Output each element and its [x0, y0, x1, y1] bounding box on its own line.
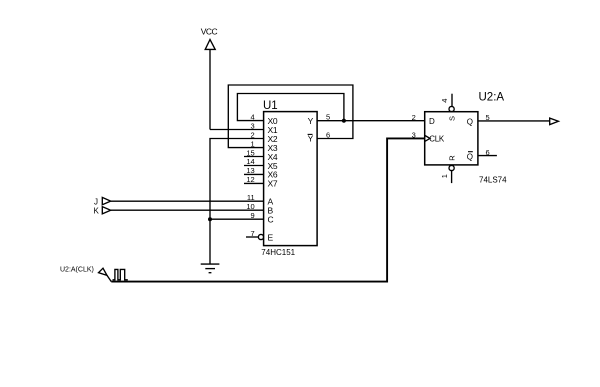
- pin X6 stub: [244, 173, 264, 175]
- svg-text:U2:A: U2:A: [479, 92, 505, 104]
- svg-text:14: 14: [246, 157, 254, 166]
- wire VCC to X1: [210, 129, 264, 131]
- svg-text:J: J: [94, 197, 98, 206]
- input J triangle: [102, 197, 110, 204]
- svg-text:VCC: VCC: [201, 26, 218, 36]
- wire CLK net: [111, 138, 425, 281]
- node junction C/ground: [208, 217, 212, 221]
- svg-text:5: 5: [486, 113, 490, 122]
- pin names U1 inside: [268, 116, 314, 242]
- ground: [201, 264, 220, 273]
- overbar Ybar: [308, 133, 313, 135]
- op U2 74LS74 box: [425, 112, 478, 165]
- svg-text:1: 1: [440, 174, 449, 178]
- svg-text:13: 13: [246, 166, 254, 175]
- svg-text:Y: Y: [308, 134, 314, 144]
- pin R bubble: [449, 165, 454, 170]
- input K triangle: [102, 207, 110, 214]
- op U1 74HC151 box: [264, 112, 318, 246]
- svg-text:1: 1: [251, 139, 255, 148]
- node junction Y: [342, 119, 346, 123]
- svg-text:C: C: [268, 215, 274, 225]
- wire Y output to D: [317, 120, 425, 122]
- svg-text:6: 6: [326, 130, 330, 139]
- pin X7 stub: [244, 182, 264, 184]
- wire feedback Y to X0: [237, 94, 344, 121]
- svg-text:5: 5: [326, 113, 330, 122]
- pin X5 stub: [244, 165, 264, 167]
- svg-text:Q: Q: [467, 118, 473, 127]
- pin S bubble: [449, 106, 454, 111]
- pin R wire: [451, 171, 453, 184]
- svg-text:E: E: [268, 232, 274, 242]
- svg-text:11: 11: [247, 193, 255, 202]
- pin E bubble: [258, 234, 263, 239]
- svg-text:10: 10: [246, 202, 254, 211]
- svg-text:D: D: [429, 117, 435, 126]
- svg-text:Y: Y: [308, 116, 314, 126]
- pin Q wire: [478, 120, 550, 122]
- svg-text:U1: U1: [263, 100, 278, 112]
- wire K to B: [111, 209, 264, 211]
- svg-text:12: 12: [246, 175, 254, 184]
- pin names U2 inside: [429, 116, 473, 161]
- svg-text:X7: X7: [268, 179, 278, 189]
- svg-text:K: K: [94, 207, 100, 216]
- svg-text:Q: Q: [467, 152, 473, 161]
- overbar Qbar label: [468, 151, 473, 153]
- wire J to A: [111, 200, 264, 202]
- svg-text:74HC151: 74HC151: [261, 248, 295, 257]
- svg-text:2: 2: [251, 130, 255, 139]
- pin numbers U2: [412, 99, 490, 179]
- svg-text:4: 4: [251, 112, 255, 121]
- output arrow: [550, 118, 559, 125]
- svg-text:CLK: CLK: [429, 135, 445, 144]
- svg-text:74LS74: 74LS74: [479, 176, 507, 185]
- clock triangle inside U2: [425, 136, 430, 142]
- wire feedback Ybar to X3: [228, 85, 353, 148]
- pin E stub: [246, 236, 258, 238]
- svg-text:4: 4: [440, 99, 449, 103]
- wire C to ground net: [210, 218, 264, 220]
- svg-text:2: 2: [412, 113, 416, 122]
- wire X2 to ground: [210, 139, 264, 265]
- pin numbers U1 left: [246, 112, 254, 238]
- svg-text:3: 3: [412, 131, 416, 140]
- svg-text:3: 3: [251, 121, 255, 130]
- svg-text:6: 6: [486, 148, 490, 157]
- svg-text:S: S: [448, 116, 457, 121]
- svg-text:9: 9: [251, 211, 255, 220]
- pin numbers U1 right: [326, 113, 330, 140]
- pin X4 stub: [244, 156, 264, 158]
- clock source symbol: [99, 268, 128, 281]
- pin S wire: [451, 94, 453, 107]
- power VCC: [205, 40, 215, 130]
- svg-text:7: 7: [251, 229, 255, 238]
- svg-text:R: R: [448, 155, 457, 161]
- pin Qbar stub: [478, 155, 497, 157]
- svg-text:15: 15: [246, 148, 254, 157]
- svg-text:U2:A(CLK): U2:A(CLK): [60, 266, 94, 273]
